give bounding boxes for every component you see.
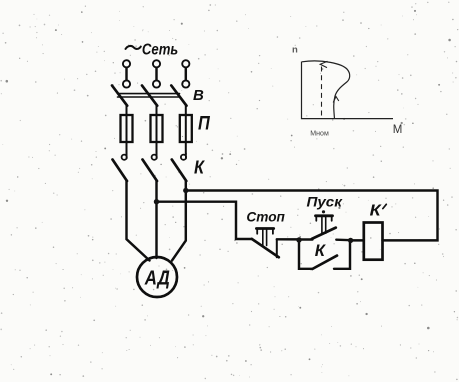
svg-text:П: П — [198, 112, 211, 134]
svg-text:Сеть: Сеть — [142, 42, 178, 59]
svg-text:n: n — [292, 44, 298, 55]
svg-text:М: М — [393, 124, 403, 136]
svg-text:К: К — [194, 156, 205, 177]
svg-text:АД: АД — [144, 268, 170, 290]
svg-text:Стоп: Стоп — [246, 210, 285, 226]
svg-text:Мном: Мном — [310, 130, 329, 137]
svg-text:В: В — [193, 87, 204, 104]
svg-text:К: К — [370, 203, 382, 220]
svg-text:К: К — [315, 241, 327, 260]
svg-text:Пуск: Пуск — [307, 195, 343, 211]
